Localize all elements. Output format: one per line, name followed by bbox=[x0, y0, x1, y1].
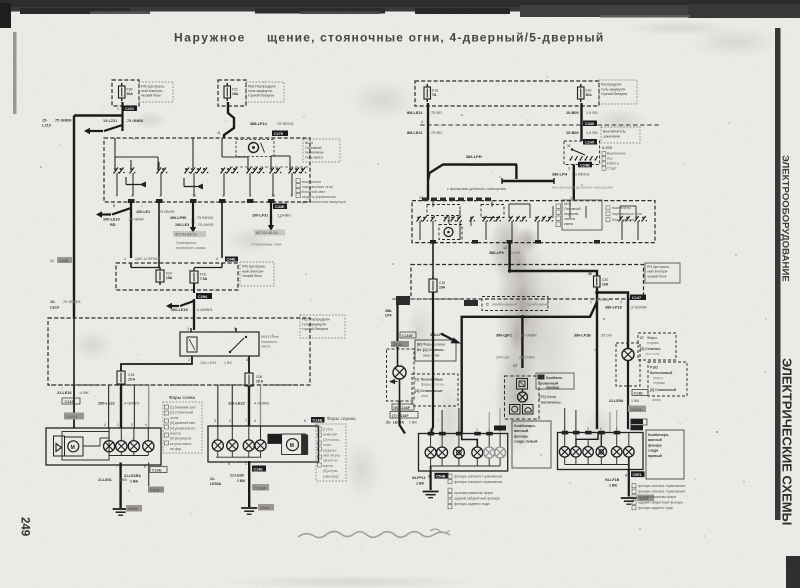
connector C54B bbox=[435, 473, 449, 479]
svg-text:.3 OGWH: .3 OGWH bbox=[630, 306, 647, 310]
battery distributor box P63 (top of left diagram) bbox=[218, 80, 246, 106]
svg-text:фонарь заднего хода: фонарь заднего хода bbox=[454, 502, 490, 506]
svg-text:C1АЕ: C1АЕ bbox=[313, 419, 323, 423]
connector C216 on headlamp feed bbox=[62, 398, 80, 404]
wire switch out parking lights arrow bbox=[270, 202, 272, 222]
svg-text:Старт: Старт bbox=[607, 167, 617, 171]
svg-text:LP9: LP9 bbox=[385, 314, 391, 318]
svg-text:парковочные огни: парковочные огни bbox=[302, 185, 333, 189]
svg-text:100-LE22: 100-LE22 bbox=[98, 402, 115, 406]
svg-text:2: 2 bbox=[131, 423, 133, 427]
M13 position indicator boxes bbox=[556, 204, 561, 227]
left trunk wire bbox=[73, 116, 75, 319]
svg-text:выключено: выключено bbox=[612, 206, 631, 210]
arrow to left marker lights bbox=[96, 211, 102, 217]
label box xenon headlamps left bbox=[412, 374, 458, 406]
svg-text:[2] Стояноч-: [2] Стояноч- bbox=[640, 347, 662, 351]
svg-text:[1] бли: [1] бли bbox=[323, 428, 333, 432]
svg-text:94-FP11: 94-FP11 bbox=[412, 476, 426, 480]
svg-text:.75 RDGN: .75 RDGN bbox=[196, 216, 213, 220]
svg-text:№13: №13 bbox=[305, 141, 313, 145]
svg-text:.35 GNBK: .35 GNBK bbox=[520, 334, 537, 338]
svg-text:[5] регулиров-: [5] регулиров- bbox=[170, 437, 192, 441]
wires bus to left headlamp pins bbox=[108, 385, 110, 428]
label box rear cluster right bbox=[646, 430, 684, 479]
svg-text:.75 RDOG: .75 RDOG bbox=[276, 122, 294, 126]
left headlamp bulbs bbox=[104, 441, 115, 452]
ground G104 left bbox=[113, 508, 129, 510]
svg-text:1: 1 bbox=[291, 194, 293, 198]
svg-text:.75 GNYE: .75 GNYE bbox=[158, 210, 175, 214]
svg-text:фары,: фары, bbox=[421, 383, 432, 387]
ignition switch box bbox=[564, 141, 600, 165]
svg-text:Фары слева: Фары слева bbox=[423, 343, 446, 347]
svg-text:огонь: огонь bbox=[323, 443, 331, 447]
svg-text:C16E: C16E bbox=[152, 469, 162, 473]
svg-text:100-LP31: 100-LP31 bbox=[252, 214, 268, 218]
wire F15 to relay bbox=[193, 283, 195, 293]
svg-text:249: 249 bbox=[19, 517, 31, 536]
svg-text:10: 10 bbox=[193, 194, 197, 198]
svg-text:15A: 15A bbox=[232, 92, 239, 96]
connector C134F boxes lower bbox=[392, 404, 414, 410]
svg-text:чатель: чатель bbox=[564, 217, 575, 221]
svg-text:Основной: Основной bbox=[305, 146, 321, 150]
svg-text:Комбиниро-: Комбиниро- bbox=[514, 424, 537, 428]
svg-text:1: 1 bbox=[117, 423, 119, 427]
svg-text:C340: C340 bbox=[585, 122, 594, 126]
legend main light switch positions bbox=[296, 179, 347, 204]
svg-text:противотуманная фара: противотуманная фара bbox=[638, 495, 676, 499]
wire relay to right low-beam fuse bbox=[248, 356, 250, 373]
rear cluster right bulbs bbox=[559, 447, 570, 458]
wire relay to left low-beam fuse bbox=[121, 356, 192, 371]
connector sleeve grey right column bbox=[628, 406, 646, 413]
parking lamp left (single bulb) bbox=[393, 366, 406, 379]
svg-text:.75 GNBK: .75 GNBK bbox=[126, 119, 144, 123]
svg-text:1 BK: 1 BK bbox=[416, 482, 425, 486]
small junction dots bbox=[521, 315, 525, 319]
svg-text:свет [4] ука-: свет [4] ука- bbox=[323, 454, 341, 458]
svg-text:ЭЛЕКТРООБОРУДОВАНИЕ: ЭЛЕКТРООБОРУДОВАНИЕ bbox=[780, 155, 791, 282]
label P/N central electric block (mid) bbox=[240, 262, 274, 286]
svg-text:.75 RD: .75 RD bbox=[430, 111, 442, 115]
fuse right headlamp 15A bbox=[245, 373, 253, 386]
svg-text:Фары: Фары bbox=[647, 336, 657, 340]
connector C134E labels on trunk bbox=[400, 332, 416, 338]
svg-text:[3] дальн.: [3] дальн. bbox=[323, 448, 337, 452]
svg-text:включены: включены bbox=[541, 401, 561, 405]
svg-text:15 A: 15 A bbox=[256, 380, 264, 384]
right switch knob sub-box bbox=[439, 225, 462, 240]
svg-text:фонарь сигнала торможения: фонарь сигнала торможения bbox=[454, 480, 502, 484]
svg-text:C06: C06 bbox=[256, 375, 262, 379]
DRL option jumper bar bbox=[502, 180, 554, 183]
svg-text:противотуманная фара: противотуманная фара bbox=[454, 491, 493, 495]
svg-text:LE30A: LE30A bbox=[210, 482, 222, 486]
handwritten pencil note bbox=[298, 532, 450, 538]
svg-text:2: 2 bbox=[600, 427, 602, 431]
svg-text:Фары справа: Фары справа bbox=[327, 416, 356, 421]
wire right lamp down to cluster bbox=[627, 361, 629, 430]
svg-text:ворота: ворота bbox=[323, 464, 333, 468]
svg-text:0: 0 bbox=[304, 419, 306, 423]
svg-text:[4] Стояночные: [4] Стояночные bbox=[415, 389, 443, 393]
svg-text:7: 7 bbox=[564, 427, 566, 431]
svg-text:F10: F10 bbox=[586, 89, 592, 93]
svg-text:10A: 10A bbox=[602, 283, 609, 287]
svg-text:огонь: огонь bbox=[652, 398, 661, 402]
svg-text:Комбини-: Комбини- bbox=[546, 376, 564, 380]
fuse F24 bbox=[130, 263, 132, 268]
svg-text:15A: 15A bbox=[166, 276, 173, 280]
label box headlamps right parking bbox=[638, 333, 676, 360]
svg-text:ный электри-: ный электри- bbox=[141, 89, 164, 93]
feeder to left cluster from instrument run bbox=[462, 317, 523, 434]
left headlamp ground wire bbox=[119, 463, 121, 509]
right cluster internal feed routing bbox=[576, 433, 598, 447]
svg-text:30A: 30A bbox=[586, 93, 593, 97]
svg-text:.75 GNBN: .75 GNBN bbox=[54, 119, 72, 123]
wire switch out licence plate lighting bbox=[192, 202, 194, 224]
svg-text:1: 1 bbox=[616, 427, 618, 431]
svg-text:5: 5 bbox=[228, 462, 230, 466]
svg-text:16-: 16- bbox=[50, 300, 56, 304]
left headlamp internal stubs bbox=[108, 428, 110, 441]
svg-text:Фары слева: Фары слева bbox=[169, 395, 196, 400]
svg-text:ванный: ванный bbox=[648, 438, 662, 442]
svg-text:[2] стоянoч.: [2] стоянoч. bbox=[323, 438, 340, 442]
left column trunk of right diagram bbox=[396, 296, 410, 305]
minor wires into right cluster bbox=[564, 408, 566, 433]
svg-text:[З]: [З] bbox=[415, 378, 419, 382]
wire fuse F30 down bbox=[121, 102, 123, 131]
right edge rule bbox=[775, 28, 781, 520]
fuse F10 bbox=[578, 87, 585, 99]
svg-text:C5Е1: C5Е1 bbox=[633, 473, 642, 477]
svg-text:1: 1 bbox=[187, 327, 189, 331]
svg-text:ворота: ворота bbox=[170, 432, 181, 436]
relay carrier fuse box (left mid) bbox=[116, 263, 238, 290]
svg-text:2: 2 bbox=[229, 419, 231, 423]
svg-text:.4 GNWG: .4 GNWG bbox=[196, 308, 213, 312]
svg-text:C24В: C24В bbox=[580, 163, 590, 167]
svg-text:17: 17 bbox=[513, 364, 517, 368]
svg-text:Вс: Вс bbox=[417, 348, 421, 352]
svg-text:длительностью импульса: длительностью импульса bbox=[302, 200, 347, 204]
ground wire left cluster bbox=[430, 471, 432, 490]
svg-text:РN Централь-: РN Централь- bbox=[647, 265, 671, 269]
svg-text:.4 GNWG: .4 GNWG bbox=[253, 402, 270, 406]
svg-text:ближний свет: ближний свет bbox=[302, 190, 325, 194]
svg-text:ровка фар: ровка фар bbox=[323, 474, 339, 478]
cluster illumination bulb bbox=[518, 392, 528, 402]
svg-text:C44E: C44E bbox=[275, 205, 285, 209]
svg-text:М13: М13 bbox=[564, 202, 571, 206]
svg-text:F13: F13 bbox=[432, 89, 438, 93]
svg-text:C216A: C216A bbox=[66, 415, 78, 419]
svg-text:.35 OG: .35 OG bbox=[600, 334, 612, 338]
svg-text:30A: 30A bbox=[127, 92, 134, 96]
right switch legend bbox=[606, 206, 642, 222]
svg-text:приборами: приборами bbox=[527, 303, 549, 307]
svg-text:Р63 Распредели-: Р63 Распредели- bbox=[302, 318, 331, 322]
callout 417-01-03-10 licence plate lights bbox=[173, 231, 206, 237]
headlamp leveling unit bbox=[54, 436, 65, 456]
svg-text:F30: F30 bbox=[127, 88, 133, 92]
svg-text:1.5 RD: 1.5 RD bbox=[586, 131, 598, 135]
svg-text:номерного знака: номерного знака bbox=[176, 246, 206, 250]
main light switch box (right) bbox=[412, 201, 655, 243]
right headlamp leveling unit bbox=[282, 434, 306, 455]
connector sleeve grey right bbox=[252, 484, 269, 491]
svg-text:30: 30 bbox=[588, 272, 592, 276]
label box M13 main light switch right bbox=[562, 200, 602, 230]
svg-text:100-LE23: 100-LE23 bbox=[228, 402, 245, 406]
legend right headlamp bbox=[316, 424, 346, 481]
svg-text:ный электри-: ный электри- bbox=[647, 270, 669, 274]
svg-text:жний свет: жний свет bbox=[323, 433, 338, 437]
svg-text:огонь: огонь bbox=[170, 416, 179, 420]
connector C5E1 bbox=[631, 471, 645, 477]
right headlamp assembly box bbox=[208, 426, 319, 462]
svg-text:C216A: C216A bbox=[630, 408, 642, 412]
svg-text:торной батареи: торной батареи bbox=[248, 94, 274, 98]
svg-text:15 A: 15 A bbox=[128, 378, 136, 382]
svg-text:15-: 15- bbox=[42, 119, 48, 123]
bottom-right corner blob bbox=[786, 556, 800, 588]
svg-text:переключа-: переключа- bbox=[305, 151, 325, 155]
svg-text:Без фонарей дневного освещения: Без фонарей дневного освещения bbox=[552, 186, 613, 190]
connector C5AB blob top bbox=[494, 426, 506, 431]
wire trunk to left headlamp bbox=[73, 385, 75, 428]
svg-text:1: 1 bbox=[488, 428, 490, 432]
wire fuse C15 to left cluster bbox=[431, 292, 433, 434]
svg-text:света: света bbox=[261, 345, 271, 349]
svg-text:LE12A: LE12A bbox=[393, 421, 404, 425]
svg-text:тель света: тель света bbox=[305, 155, 323, 159]
svg-text:.75 GNBN: .75 GNBN bbox=[594, 298, 610, 302]
svg-text:Основной: Основной bbox=[564, 207, 580, 211]
svg-text:ные огни: ные огни bbox=[423, 354, 439, 358]
label P63 battery distributor (right of enclosure) bbox=[300, 315, 345, 338]
cluster gauge icons bbox=[510, 405, 521, 415]
svg-text:Ксеноновый: Ксеноновый bbox=[650, 371, 672, 375]
feed run inside block bbox=[510, 265, 597, 277]
right cluster bulb 4 inner ring bbox=[599, 450, 603, 454]
arrow daytime running feed bbox=[166, 303, 172, 309]
svg-text:1 BK: 1 BK bbox=[237, 479, 246, 483]
svg-text:.75 GNYE: .75 GNYE bbox=[197, 223, 214, 227]
legend rear cluster right bbox=[632, 484, 685, 510]
svg-text:[4] указатели по-: [4] указатели по- bbox=[170, 426, 196, 430]
svg-text:К043 Реле: К043 Реле bbox=[261, 335, 279, 339]
svg-text:8: 8 bbox=[144, 465, 146, 469]
wire switch out to fuse F24 bbox=[158, 202, 160, 268]
central electric block enclosure (right diagram) bbox=[411, 265, 644, 300]
connector C147 bbox=[630, 295, 646, 301]
label box headlamps left parking lights bbox=[415, 340, 456, 361]
svg-text:.4 GNWG: .4 GNWG bbox=[123, 402, 140, 406]
fuse F13 bbox=[424, 87, 431, 99]
connector C294 bbox=[196, 293, 212, 299]
svg-text:С: С bbox=[486, 302, 489, 307]
link to DRL jumper bar bbox=[515, 165, 517, 180]
svg-text:417-01-03-10: 417-01-03-10 bbox=[175, 233, 197, 237]
svg-text:1 OG: 1 OG bbox=[511, 251, 520, 255]
svg-text:.4 BK: .4 BK bbox=[79, 391, 89, 395]
left cluster bulb 3 inner ring bbox=[457, 450, 462, 455]
svg-text:390-LP55: 390-LP55 bbox=[170, 216, 186, 220]
svg-text:C44E: C44E bbox=[227, 258, 237, 262]
svg-text:сзади: сзади bbox=[648, 449, 658, 453]
connector C340 bbox=[583, 121, 597, 127]
svg-text:[2] стояночный: [2] стояночный bbox=[170, 411, 193, 415]
svg-text:ближнего: ближнего bbox=[261, 340, 277, 344]
svg-text:[7] C134F: [7] C134F bbox=[392, 414, 409, 418]
svg-text:4: 4 bbox=[145, 423, 147, 427]
wire from F21 to light switch pin 11 bbox=[224, 102, 234, 138]
right switch contacts bbox=[417, 216, 647, 222]
wire horizontal to left trunk bbox=[74, 114, 123, 116]
svg-text:фары,: фары, bbox=[653, 376, 664, 380]
svg-text:C134: C134 bbox=[393, 343, 403, 347]
svg-text:.75 RD: .75 RD bbox=[430, 131, 442, 135]
combination link box bbox=[482, 297, 548, 311]
svg-text:ные огни: ные огни bbox=[645, 352, 660, 356]
right switch sub-box B bbox=[481, 205, 504, 218]
left cluster top edge pin blobs bbox=[428, 432, 493, 436]
svg-text:5: 5 bbox=[223, 194, 225, 198]
svg-text:ЭЛЕКТРИЧЕСКИЕ СХЕМЫ: ЭЛЕКТРИЧЕСКИЕ СХЕМЫ bbox=[780, 358, 795, 525]
cluster telltale module icon bbox=[517, 379, 528, 390]
svg-text:1.5 RD: 1.5 RD bbox=[586, 111, 598, 115]
svg-text:[5] регули-: [5] регули- bbox=[323, 469, 338, 473]
svg-text:11: 11 bbox=[217, 131, 221, 135]
minor wires into left cluster bbox=[441, 410, 443, 434]
svg-text:1 BK: 1 BK bbox=[224, 361, 232, 365]
connector sleeve grey bbox=[64, 413, 84, 420]
svg-text:торной батареи: торной батареи bbox=[601, 92, 627, 96]
svg-text:386-LP9: 386-LP9 bbox=[489, 251, 504, 255]
arrow out to parking lamp feed bbox=[84, 128, 90, 134]
label A30 combination instrument bbox=[536, 373, 574, 389]
right cluster top edge pin blobs bbox=[562, 431, 621, 435]
headlamp inner frame bbox=[62, 432, 109, 461]
svg-text:417-01-40-12: 417-01-40-12 bbox=[256, 231, 278, 235]
right switch contact drop wires bbox=[419, 221, 421, 240]
svg-text:C294: C294 bbox=[198, 295, 208, 299]
enclosure bottom dashed bus bbox=[51, 384, 310, 386]
connector C14E right headlamp bbox=[311, 417, 325, 423]
relay coil feeds bbox=[190, 328, 192, 332]
instrument cluster box bbox=[505, 376, 540, 419]
svg-text:Acc: Acc bbox=[607, 157, 613, 161]
right headlamp bulbs bbox=[212, 440, 223, 451]
svg-text:6: 6 bbox=[628, 427, 630, 431]
wire switch to central block (thick trunk) bbox=[508, 243, 510, 265]
svg-text:14: 14 bbox=[272, 194, 276, 198]
svg-text:30: 30 bbox=[567, 144, 571, 148]
svg-text:переклю-: переклю- bbox=[564, 212, 580, 216]
svg-text:C147: C147 bbox=[632, 296, 641, 300]
svg-text:2: 2 bbox=[250, 194, 252, 198]
svg-text:1 BK: 1 BK bbox=[609, 484, 618, 488]
ground G403 right bbox=[621, 497, 637, 499]
switch top edge pin blobs bbox=[422, 198, 491, 202]
svg-text:7: 7 bbox=[116, 194, 118, 198]
svg-text:C14E: C14E bbox=[634, 392, 644, 396]
parking lamp left dashed enclosure bbox=[387, 349, 415, 401]
svg-text:тель аккумуля-: тель аккумуля- bbox=[302, 322, 328, 326]
svg-text:парковочные огни: парковочные огни bbox=[612, 212, 642, 216]
svg-text:выключено: выключено bbox=[302, 180, 321, 184]
svg-text:щение, стояночные огни, 4-двер: щение, стояночные огни, 4-дверный/5-двер… bbox=[267, 31, 604, 45]
wire ignition to lighting bus bbox=[573, 165, 575, 201]
svg-text:21-LE30: 21-LE30 bbox=[230, 474, 244, 478]
svg-text:2: 2 bbox=[188, 358, 190, 362]
daytime-running-lights feed bus bbox=[428, 165, 517, 181]
label PN central electric block right bbox=[645, 263, 680, 283]
svg-text:4: 4 bbox=[104, 423, 106, 427]
svg-text:12: 12 bbox=[503, 246, 507, 250]
svg-text:LZ10: LZ10 bbox=[42, 124, 51, 128]
svg-text:Р/В Централь-: Р/В Централь- bbox=[141, 85, 166, 89]
svg-text:12: 12 bbox=[50, 259, 54, 263]
svg-text:10A: 10A bbox=[439, 286, 446, 290]
svg-text:4: 4 bbox=[216, 257, 218, 261]
svg-text:386-LPH: 386-LPH bbox=[466, 154, 482, 159]
left headlamp assembly box bbox=[46, 428, 161, 465]
arrow stub at lamp bbox=[389, 379, 395, 385]
svg-text:Наружное: Наружное bbox=[174, 31, 246, 45]
svg-text:правый: правый bbox=[648, 454, 662, 458]
battery distributor box (top right) bbox=[415, 81, 599, 106]
svg-text:ный электри-: ный электри- bbox=[242, 269, 265, 273]
svg-text:.75 GNWG: .75 GNWG bbox=[62, 300, 81, 304]
svg-text:Выключатель: Выключатель bbox=[603, 130, 626, 134]
inter-sheet dashed link line bbox=[420, 124, 660, 126]
svg-text:фонарь сигнала торможения: фонарь сигнала торможения bbox=[638, 484, 685, 488]
svg-text:Р182: Р182 bbox=[650, 366, 658, 370]
svg-text:8: 8 bbox=[430, 428, 432, 432]
svg-text:7.5A: 7.5A bbox=[200, 277, 208, 281]
svg-text:27: 27 bbox=[640, 336, 644, 340]
label ignition switch bbox=[601, 127, 640, 143]
svg-text:10-B09: 10-B09 bbox=[566, 131, 578, 135]
svg-text:с фонарями дневного освещения: с фонарями дневного освещения bbox=[447, 187, 506, 191]
rear cluster left bulbs bbox=[425, 447, 436, 458]
svg-text:слева: слева bbox=[434, 383, 444, 387]
svg-text:.75 GNW: .75 GNW bbox=[128, 218, 144, 222]
svg-text:тель аккумуля-: тель аккумуля- bbox=[601, 87, 627, 91]
right switch pin blobs bottom edge bbox=[430, 240, 600, 244]
right cluster top pin numbers bbox=[564, 427, 630, 431]
svg-text:3: 3 bbox=[568, 167, 570, 171]
wire switch output to fuse A bbox=[432, 243, 434, 265]
switch pin blobs bottom edge bbox=[116, 194, 293, 203]
svg-text:C15: C15 bbox=[128, 373, 134, 377]
label box xenon headlamps right bbox=[648, 362, 687, 396]
connector blobs above right cluster corner bbox=[631, 419, 644, 424]
parking lamp right dashed enclosure bbox=[616, 343, 640, 386]
right switch internal wires bbox=[432, 201, 434, 207]
svg-text:C14Е: C14Е bbox=[254, 468, 264, 472]
svg-text:.35 GNBK: .35 GNBK bbox=[518, 356, 535, 360]
svg-text:8M-LE21: 8M-LE21 bbox=[407, 131, 423, 135]
connector C216 lower bbox=[148, 487, 164, 493]
svg-text:C201: C201 bbox=[125, 107, 134, 111]
